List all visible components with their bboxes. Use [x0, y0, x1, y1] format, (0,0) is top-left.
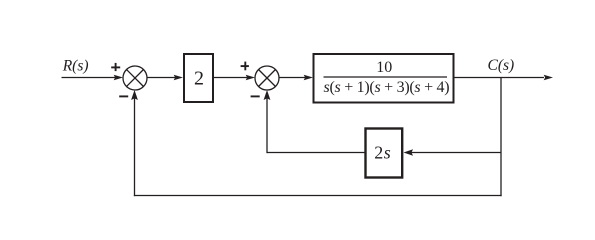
svg-text:2: 2 [194, 68, 204, 90]
wire S1 to block 2 [147, 75, 183, 81]
wire outer loop up to S1 [131, 90, 138, 196]
wire outer feedback loop bottom [134, 195, 502, 197]
summing junction S2 [255, 66, 279, 90]
wire branch to 2s block input [404, 149, 502, 156]
svg-text:10: 10 [376, 59, 392, 76]
wire plant to output C(s) [455, 75, 554, 81]
wire input R(s) to summer S1 [62, 75, 124, 81]
feedback block 2s [366, 129, 403, 178]
svg-text:C(s): C(s) [488, 57, 515, 74]
plant block G = 10/s(s+1)(s+3)(s+4) [314, 54, 454, 103]
svg-text:s(s + 1)(s + 3)(s + 4): s(s + 1)(s + 3)(s + 4) [324, 79, 450, 96]
wire S2 to plant block [279, 75, 313, 81]
wire takeoff branch vertical at x=501 [500, 78, 502, 197]
minus sign at S2 [251, 95, 260, 97]
minus sign at S1 [119, 95, 128, 97]
wire block 2 to summer S2 [214, 75, 255, 81]
svg-text:R(s): R(s) [62, 58, 89, 75]
summing junction S1 [123, 66, 147, 90]
svg-text:2s: 2s [374, 143, 391, 163]
gain block 2 [184, 54, 213, 102]
plus sign at S1 [111, 63, 120, 71]
plus sign at S2 [241, 62, 249, 71]
wire 2s output to S2 (left then up) [264, 90, 365, 153]
